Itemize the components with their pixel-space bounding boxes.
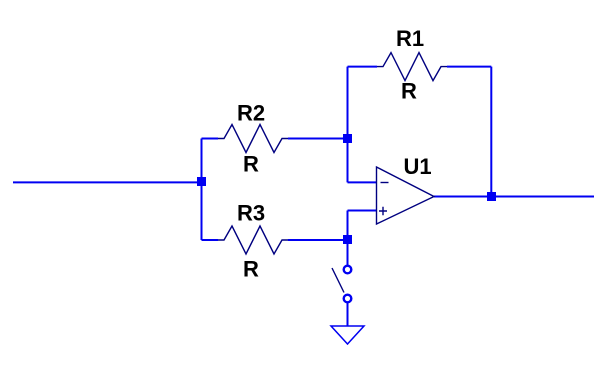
svg-text:R2: R2 [237, 101, 265, 126]
svg-text:U1: U1 [404, 154, 432, 179]
svg-text:R3: R3 [237, 201, 265, 226]
svg-text:R1: R1 [396, 26, 424, 51]
svg-text:R: R [401, 79, 417, 104]
svg-text:R: R [243, 152, 259, 177]
svg-text:R: R [243, 257, 259, 282]
